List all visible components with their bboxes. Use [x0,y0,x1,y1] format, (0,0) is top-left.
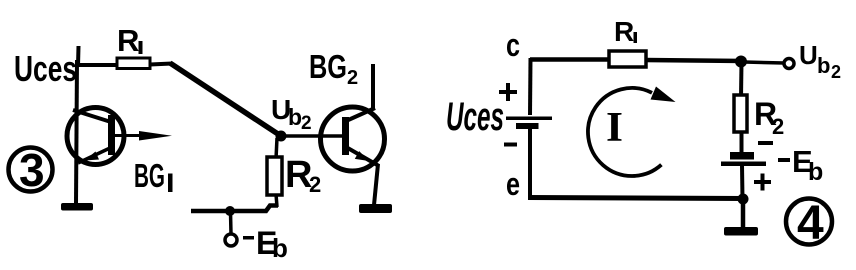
resistor R1 (left circuit) [117,58,150,69]
wire node Ub2 down to R2 [276,138,277,159]
wire bottom rail e to junction [528,198,744,199]
label e (emitter node) [506,166,520,202]
minus sign (Eb battery) [758,141,773,145]
node Ub2 junction dot [276,131,287,142]
label c (collector node) [506,27,520,63]
svg-text:b: b [288,104,302,130]
label R2 (left circuit) [285,154,321,197]
svg-text:2: 2 [772,114,784,139]
wire node Ub2 to BG2 base [281,134,343,138]
wire diagonal bend to node Ub2 [170,63,281,136]
svg-text:R: R [117,23,139,58]
svg-text:3: 3 [19,144,45,196]
label BG2 [309,48,358,89]
svg-text:e: e [506,166,520,202]
wire BG2 collector stub [371,64,375,109]
svg-text:I: I [606,105,623,151]
svg-text:R: R [614,16,634,47]
svg-text:Uces: Uces [14,48,77,89]
svg-text:b: b [817,53,830,78]
ground (right circuit) [724,227,758,236]
battery Uces long plate [506,117,552,121]
battery Eb short plate [730,152,754,160]
junction dot bottom right [738,194,749,205]
wire junction to -Eb terminal [229,212,233,234]
label -Eb (left circuit) [243,225,288,263]
wire top rail c to R1 [530,57,612,62]
wire R2 down to battery [740,131,744,153]
terminal Ub2 open circle [784,59,794,69]
label BG1 [134,157,173,194]
wire BG2 emitter to ground [374,164,378,205]
resistor R2 (left circuit) [267,157,282,195]
wire bottom rail to -Eb terminal [191,206,278,212]
label -Eb (right circuit) [778,144,823,186]
label Ub2 (left circuit) [271,94,312,134]
svg-text:Uces: Uces [446,95,504,139]
svg-text:4: 4 [797,197,824,250]
wire BG1 collector-emitter vertical (Uces node to ground) [76,60,77,204]
svg-text:BG: BG [134,157,165,194]
label R1 (right circuit) [614,16,637,47]
circled number 4 [786,197,832,250]
node Uces tick [76,46,81,66]
terminal -Eb open circle [225,234,237,246]
resistor R2 (right circuit) [734,95,747,132]
ground (under BG1) [61,203,93,211]
wire Uces to R1 [77,63,118,67]
minus sign (Uces battery) [504,143,517,147]
wire node to Ub2 terminal [744,62,784,63]
wire R1 to node Ub2 (top rail right) [645,60,744,61]
wire battery down to bottom junction [740,165,745,199]
svg-text:BG: BG [309,48,347,85]
svg-text:b: b [808,158,823,186]
wire R2 bottom stub [276,194,277,207]
transistor BG2 [321,107,385,171]
plus sign (Eb battery) [754,174,771,191]
resistor R1 (right circuit) [609,51,646,67]
wire left rail battery down to e [528,128,532,199]
svg-text:2: 2 [309,172,321,197]
junction dot top right (node Ub2) [735,56,747,68]
label R2 (right circuit) [754,96,784,139]
battery Uces short plate [516,123,539,129]
svg-text:2: 2 [831,62,841,82]
svg-text:b: b [272,233,288,263]
wire junction to ground [741,199,746,228]
label Uces (left circuit) [14,48,77,89]
plus sign (Uces battery) [499,83,517,101]
svg-text:2: 2 [347,67,358,89]
circled number 3 [9,144,53,196]
svg-text:c: c [506,27,520,63]
battery Eb long plate [721,162,766,167]
label R1 (left circuit) [117,23,143,58]
transistor BG1 [67,108,172,165]
label I (loop current) [606,105,623,151]
wire R1 to bend [150,64,172,65]
junction dot on bottom rail [225,206,235,216]
label Ub2 (right circuit) [799,40,841,82]
svg-text:U: U [799,40,818,70]
svg-text:2: 2 [301,113,312,134]
label Uces (right circuit) [446,95,504,139]
wire left rail c down to battery [528,58,533,115]
current loop arrow I [588,87,676,176]
ground (under BG2) [359,204,392,213]
wire node down to R2 [739,62,744,98]
